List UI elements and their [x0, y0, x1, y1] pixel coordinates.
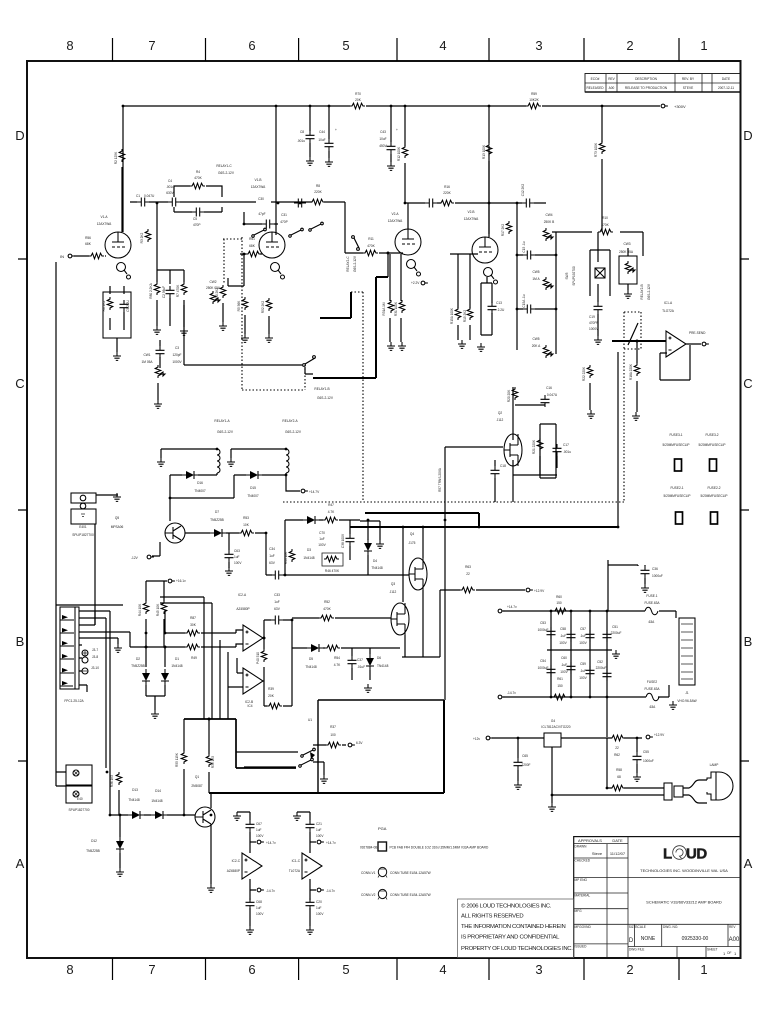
svg-text:VHO.96-5AW: VHO.96-5AW	[677, 699, 696, 703]
svg-text:J1: J1	[685, 691, 689, 695]
svg-text:C1: C1	[136, 194, 140, 198]
svg-text:MPSA06: MPSA06	[111, 525, 124, 529]
svg-text:SW3: SW3	[565, 272, 569, 279]
svg-text:470P: 470P	[193, 223, 200, 227]
svg-text:11/12/07: 11/12/07	[610, 851, 626, 856]
svg-text:D12: D12	[91, 839, 97, 843]
svg-text:63V: 63V	[269, 561, 276, 565]
svg-text:D14: D14	[155, 789, 161, 793]
svg-text:1: 1	[734, 951, 737, 956]
svg-text:C33: C33	[274, 593, 280, 597]
svg-text:TL072A: TL072A	[289, 869, 301, 873]
svg-text:TN4007: TN4007	[247, 494, 259, 498]
svg-text:FUSE.1: FUSE.1	[646, 594, 657, 598]
svg-text:.1uF: .1uF	[561, 663, 567, 667]
svg-text:IC1-C: IC1-C	[292, 859, 301, 863]
svg-text:J175: J175	[409, 541, 416, 545]
svg-text:C19: C19	[589, 315, 595, 319]
svg-text:DATE: DATE	[612, 838, 623, 843]
svg-text:R54: R54	[334, 656, 340, 660]
svg-text:+14.7v: +14.7v	[266, 841, 276, 845]
svg-text:10uF: 10uF	[318, 138, 325, 142]
svg-text:30K: 30K	[190, 623, 197, 627]
svg-text:SPUP192700: SPUP192700	[572, 266, 576, 286]
svg-text:E40: E40	[77, 797, 83, 801]
svg-text:E401: E401	[79, 525, 87, 529]
svg-text:© 2006 LOUD TECHNOLOGIES INC.: © 2006 LOUD TECHNOLOGIES INC.	[461, 903, 552, 910]
svg-text:G6S-2-12V: G6S-2-12V	[647, 283, 651, 300]
svg-text:5: 5	[342, 962, 349, 977]
svg-text:12AX7WA: 12AX7WA	[388, 219, 403, 223]
svg-text:1: 1	[700, 38, 707, 53]
svg-text:R39: R39	[268, 687, 274, 691]
svg-text:63V: 63V	[274, 607, 281, 611]
svg-text:A00: A00	[729, 937, 740, 943]
svg-text:P40 510: P40 510	[256, 652, 260, 664]
svg-text:1000uF: 1000uF	[652, 574, 663, 578]
svg-text:R60: R60	[556, 595, 562, 599]
svg-text:RELAY2-B: RELAY2-B	[640, 284, 644, 299]
svg-text:4.7K: 4.7K	[334, 663, 341, 667]
svg-text:PCB FAB FR4 DOUBLE 1OZ 310x/.: PCB FAB FR4 DOUBLE 1OZ 310x/.35MM/1.6MM …	[390, 846, 489, 850]
svg-text:R18A 220K: R18A 220K	[629, 363, 633, 380]
svg-text:.1uF: .1uF	[580, 669, 586, 673]
svg-text:100V: 100V	[559, 641, 567, 645]
svg-text:Q1: Q1	[195, 775, 199, 779]
svg-text:R22 220K: R22 220K	[582, 366, 586, 381]
svg-text:C37: C37	[357, 658, 363, 662]
svg-text:R57 TRNS.20VA: R57 TRNS.20VA	[438, 467, 442, 492]
svg-text:1uF: 1uF	[256, 906, 262, 910]
svg-text:R49: R49	[191, 656, 197, 660]
svg-text:R5 56K: R5 56K	[237, 300, 241, 312]
svg-text:R13 100K: R13 100K	[482, 144, 486, 159]
svg-text:470PF: 470PF	[589, 321, 598, 325]
svg-text:J3-7: J3-7	[92, 648, 98, 652]
svg-text:MFG: MFG	[575, 909, 583, 913]
svg-text:20K A: 20K A	[532, 344, 541, 348]
svg-text:CW4: CW4	[545, 213, 552, 217]
svg-text:B: B	[744, 634, 753, 649]
svg-text:V1-B: V1-B	[254, 178, 261, 182]
svg-text:R44 10K: R44 10K	[138, 603, 142, 616]
svg-text:D3: D3	[307, 548, 311, 552]
svg-text:100V: 100V	[579, 641, 587, 645]
svg-text:450V: 450V	[379, 144, 387, 148]
svg-text:120pF: 120pF	[172, 353, 181, 357]
svg-text:+14.7v: +14.7v	[507, 605, 517, 609]
svg-text:ECO#: ECO#	[591, 77, 600, 81]
svg-text:D13: D13	[132, 788, 138, 792]
svg-text:C15 .1u: C15 .1u	[522, 241, 526, 252]
svg-text:C2 56uF: C2 56uF	[162, 286, 166, 298]
svg-text:LAMP: LAMP	[710, 763, 719, 767]
svg-text:V2-B: V2-B	[467, 210, 474, 214]
svg-text:6.3V: 6.3V	[356, 741, 363, 745]
svg-text:2: 2	[626, 38, 633, 53]
svg-text:TN4148: TN4148	[128, 798, 140, 802]
svg-text:C13: C13	[496, 301, 502, 305]
svg-text:100V: 100V	[316, 912, 324, 916]
svg-text:TN5Z25B: TN5Z25B	[86, 849, 100, 853]
svg-text:+12.9V: +12.9V	[654, 733, 665, 737]
svg-text:3: 3	[535, 962, 542, 977]
svg-text:100V: 100V	[318, 543, 326, 547]
svg-text:470K: 470K	[194, 176, 202, 180]
svg-text:TN4148: TN4148	[377, 664, 389, 668]
svg-text:470P: 470P	[280, 220, 287, 224]
svg-text:C: C	[15, 376, 24, 391]
svg-text:DWG. NO.: DWG. NO.	[663, 925, 678, 929]
svg-text:5: 5	[342, 38, 349, 53]
svg-text:CW5: CW5	[532, 270, 539, 274]
svg-text:C54: C54	[540, 659, 546, 663]
svg-text:DATE: DATE	[722, 77, 730, 81]
svg-text:TN5Z25B: TN5Z25B	[210, 518, 224, 522]
svg-text:R52 2K2: R52 2K2	[261, 301, 265, 314]
svg-text:1: 1	[723, 951, 726, 956]
svg-text:1N4148: 1N4148	[171, 664, 182, 668]
svg-text:1uF: 1uF	[274, 600, 280, 604]
svg-text:C36: C36	[652, 567, 658, 571]
svg-text:D2: D2	[136, 657, 140, 661]
svg-text:R37: R37	[330, 725, 336, 729]
svg-text:TN4007: TN4007	[194, 489, 206, 493]
svg-text:+16.1v: +16.1v	[176, 579, 186, 583]
svg-text:CW5: CW5	[532, 337, 539, 341]
svg-text:C58: C58	[560, 627, 566, 631]
svg-text:C3: C3	[175, 346, 179, 350]
svg-text:J112: J112	[497, 418, 504, 422]
svg-text:IC2-C: IC2-C	[232, 859, 241, 863]
svg-text:1M A: 1M A	[532, 277, 540, 281]
svg-text:0.047U: 0.047U	[547, 393, 558, 397]
svg-text:5/20MMFUSECLIP: 5/20MMFUSECLIP	[700, 494, 727, 498]
svg-text:TN4148: TN4148	[371, 566, 383, 570]
svg-text:FUSE3-1: FUSE3-1	[669, 433, 682, 437]
svg-text:+300V: +300V	[674, 104, 686, 109]
svg-text:DESCRIPTION: DESCRIPTION	[635, 77, 657, 81]
svg-text:+12v: +12v	[473, 737, 480, 741]
svg-text:.1uF: .1uF	[580, 634, 586, 638]
svg-text:R11: R11	[368, 237, 374, 241]
svg-text:+14.7V: +14.7V	[309, 490, 320, 494]
svg-text:C12 2K2: C12 2K2	[521, 184, 525, 197]
svg-text:MFGOVND: MFGOVND	[575, 925, 592, 929]
svg-text:-12V: -12V	[131, 556, 139, 560]
svg-text:2200F: 2200F	[521, 763, 530, 767]
svg-text:C51: C51	[612, 625, 618, 629]
svg-text:6: 6	[248, 962, 255, 977]
svg-text:REV. BY: REV. BY	[682, 77, 695, 81]
svg-text:C30: C30	[258, 197, 264, 201]
svg-text:SCALE: SCALE	[635, 925, 645, 929]
svg-text:U1: U1	[308, 718, 312, 722]
svg-text:+14.7v: +14.7v	[326, 841, 336, 845]
svg-text:C67: C67	[256, 822, 262, 826]
svg-text:FPC1.25-12A: FPC1.25-12A	[64, 699, 84, 703]
svg-text:SCHEMATIC V33/66V33212 AMP BOA: SCHEMATIC V33/66V33212 AMP BOARD	[646, 900, 722, 905]
svg-text:8: 8	[66, 962, 73, 977]
svg-text:R12 100K: R12 100K	[397, 146, 401, 161]
svg-text:REV: REV	[608, 77, 615, 81]
svg-text:AZ4580P: AZ4580P	[227, 869, 240, 873]
svg-text:C43: C43	[380, 130, 386, 134]
svg-text:R15A 100K: R15A 100K	[450, 307, 454, 324]
svg-text:SPUP1827700: SPUP1827700	[68, 808, 89, 812]
svg-text:L: L	[663, 846, 672, 863]
svg-text:5/20MMFUSECLIP: 5/20MMFUSECLIP	[663, 494, 690, 498]
svg-text:RELEASED: RELEASED	[586, 86, 604, 90]
svg-text:4: 4	[439, 38, 446, 53]
svg-text:100V: 100V	[579, 676, 587, 680]
svg-text:J3-10: J3-10	[91, 666, 99, 670]
svg-text:2.2U: 2.2U	[498, 308, 505, 312]
svg-text:FUSE.63A: FUSE.63A	[644, 601, 660, 605]
svg-text:RELAY2-C: RELAY2-C	[346, 256, 350, 272]
svg-text:C55: C55	[643, 750, 649, 754]
svg-text:R70: R70	[355, 92, 361, 96]
svg-text:FUSE3-2: FUSE3-2	[705, 433, 718, 437]
svg-text:C53: C53	[540, 621, 546, 625]
svg-text:.63A: .63A	[648, 620, 655, 624]
svg-text:IC2-A: IC2-A	[238, 593, 247, 597]
svg-text:D5: D5	[309, 657, 313, 661]
svg-text:100V: 100V	[560, 670, 568, 674]
svg-text:D: D	[743, 128, 752, 143]
svg-text:1M 05A: 1M 05A	[142, 360, 154, 364]
svg-text:100: 100	[330, 733, 336, 737]
svg-text:B: B	[16, 634, 25, 649]
svg-text:R61: R61	[557, 677, 563, 681]
svg-text:IN: IN	[60, 254, 64, 259]
svg-text:20K: 20K	[355, 98, 362, 102]
svg-text:68K: 68K	[85, 242, 92, 246]
svg-text:0925330-00: 0925330-00	[682, 936, 709, 942]
svg-text:CONN TUBE ELB4-12A57W: CONN TUBE ELB4-12A57W	[390, 871, 431, 875]
svg-text:TLO72A: TLO72A	[662, 309, 675, 313]
svg-text:R73 100K: R73 100K	[594, 142, 598, 157]
svg-text:150: 150	[557, 684, 563, 688]
svg-text:1000V: 1000V	[172, 360, 182, 364]
svg-text:D15: D15	[250, 486, 256, 490]
svg-text:250K B: 250K B	[544, 220, 554, 224]
svg-text:.001u: .001u	[166, 185, 174, 189]
svg-text:REV: REV	[729, 925, 736, 929]
svg-text:8: 8	[66, 38, 73, 53]
svg-text:20K: 20K	[268, 694, 275, 698]
svg-text:R58: R58	[616, 768, 622, 772]
svg-text:5/20MMFUSECLIP: 5/20MMFUSECLIP	[662, 443, 689, 447]
svg-text:TN4148: TN4148	[305, 665, 317, 669]
svg-text:RELAY1-A: RELAY1-A	[214, 419, 230, 423]
svg-text:NONE: NONE	[641, 936, 656, 942]
svg-text:C63: C63	[234, 549, 240, 553]
svg-text:UD: UD	[686, 846, 707, 863]
svg-text:2200uF: 2200uF	[611, 631, 622, 635]
svg-text:R31 100K: R31 100K	[394, 301, 398, 316]
svg-text:J3-8: J3-8	[92, 655, 98, 659]
svg-text:G4: G4	[551, 719, 555, 723]
svg-text:2: 2	[626, 962, 633, 977]
svg-text:250K 05A: 250K 05A	[206, 286, 221, 290]
svg-text:C68: C68	[256, 900, 262, 904]
svg-text:470K: 470K	[601, 223, 609, 227]
svg-text:C70: C70	[319, 531, 325, 535]
svg-text:D: D	[629, 938, 634, 944]
svg-text:MP ENG: MP ENG	[575, 878, 588, 882]
svg-text:R3 2K2: R3 2K2	[140, 232, 144, 243]
svg-text:ICL7812ACV/TO220: ICL7812ACV/TO220	[541, 725, 570, 729]
svg-text:RELAY1-C: RELAY1-C	[216, 164, 232, 168]
svg-text:TECHNOLOGIES INC. WOODINVILLE: TECHNOLOGIES INC. WOODINVILLE WA. USA	[640, 868, 728, 873]
svg-text:100V: 100V	[234, 561, 242, 565]
svg-text:G6S-2-12V: G6S-2-12V	[217, 430, 234, 434]
svg-text:Steve: Steve	[592, 851, 603, 856]
svg-text:12AX7WA: 12AX7WA	[464, 217, 479, 221]
svg-text:R56: R56	[85, 236, 91, 240]
svg-text:CW2: CW2	[209, 280, 216, 284]
svg-text:G6S-2-12V: G6S-2-12V	[218, 171, 235, 175]
svg-text:C34: C34	[269, 547, 275, 551]
svg-text:A: A	[16, 856, 25, 871]
svg-text:CONN TUBE ELB4-12A57W: CONN TUBE ELB4-12A57W	[390, 893, 431, 897]
svg-text:FUSE.63A: FUSE.63A	[644, 687, 660, 691]
svg-text:R16: R16	[444, 185, 450, 189]
svg-text:R8: R8	[316, 184, 320, 188]
svg-text:SPLIP1827700: SPLIP1827700	[72, 533, 94, 537]
svg-text:C5: C5	[193, 217, 197, 221]
svg-text:1uF: 1uF	[269, 554, 275, 558]
svg-text:FUSE2-2: FUSE2-2	[707, 486, 720, 490]
svg-text:C4: C4	[168, 179, 172, 183]
svg-text:1uF: 1uF	[234, 555, 240, 559]
svg-text:Q5: Q5	[115, 516, 119, 520]
svg-text:1uF: 1uF	[319, 537, 325, 541]
svg-text:DWG FILE: DWG FILE	[629, 948, 644, 952]
svg-text:10K: 10K	[243, 523, 250, 527]
svg-text:100V: 100V	[256, 912, 264, 916]
svg-text:IC4: IC4	[248, 704, 253, 708]
svg-text:+12.9V: +12.9V	[534, 589, 545, 593]
svg-text:+: +	[396, 128, 398, 132]
svg-text:-14.7v: -14.7v	[507, 691, 516, 695]
svg-text:.63A: .63A	[649, 705, 656, 709]
svg-text:R63: R63	[465, 565, 471, 569]
svg-text:ALL RIGHTS RESERVED: ALL RIGHTS RESERVED	[461, 914, 523, 920]
svg-text:CW1: CW1	[143, 353, 150, 357]
svg-text:C15A .1u: C15A .1u	[522, 294, 526, 307]
svg-text:R36 1K5: R36 1K5	[110, 775, 114, 788]
svg-text:C31: C31	[281, 213, 287, 217]
svg-text:47pF: 47pF	[258, 212, 265, 216]
svg-text:68K: 68K	[249, 244, 256, 248]
svg-text:CHECKED: CHECKED	[575, 859, 591, 863]
svg-text:D4: D4	[373, 559, 377, 563]
svg-text:220K: 220K	[314, 190, 322, 194]
svg-text:1N4148: 1N4148	[151, 799, 162, 803]
svg-text:12AX7WA: 12AX7WA	[251, 185, 266, 189]
svg-text:0927884-0B: 0927884-0B	[360, 846, 377, 850]
svg-text:D7: D7	[215, 510, 219, 514]
svg-text:1000uF: 1000uF	[538, 628, 549, 632]
svg-text:RELAY2-A: RELAY2-A	[282, 419, 298, 423]
svg-text:2200uF: 2200uF	[596, 666, 607, 670]
svg-text:C18: C18	[500, 464, 506, 468]
svg-text:1000uF: 1000uF	[538, 666, 549, 670]
svg-text:IC1-A: IC1-A	[664, 301, 673, 305]
svg-text:-14.7v: -14.7v	[326, 889, 335, 893]
svg-text:C20: C20	[316, 900, 322, 904]
svg-text:5/20MMFUSECLIP: 5/20MMFUSECLIP	[698, 443, 725, 447]
svg-text:Q4: Q4	[410, 532, 414, 536]
svg-text:OF: OF	[727, 951, 731, 955]
svg-text:ISSUED: ISSUED	[575, 945, 588, 949]
svg-text:R7 470K: R7 470K	[176, 284, 180, 297]
svg-text:R87: R87	[190, 616, 196, 620]
svg-text:R45 10K: R45 10K	[156, 603, 160, 616]
svg-text:R55 115K: R55 115K	[175, 752, 179, 767]
svg-text:D16: D16	[197, 481, 203, 485]
svg-text:G6S-2-12V: G6S-2-12V	[353, 255, 357, 272]
svg-text:R46 470K: R46 470K	[325, 569, 340, 573]
svg-text:C38 100V: C38 100V	[341, 533, 345, 548]
svg-text:C5 2.2U: C5 2.2U	[126, 299, 130, 311]
svg-text:IS PROPRIETARY AND CONFIDENTIA: IS PROPRIETARY AND CONFIDENTIAL	[461, 935, 560, 941]
svg-text:C57: C57	[580, 627, 586, 631]
svg-text:7: 7	[148, 962, 155, 977]
svg-text:APPROVALS: APPROVALS	[578, 838, 602, 843]
svg-text:+2.2V: +2.2V	[411, 281, 420, 285]
svg-text:CONN-V1: CONN-V1	[361, 871, 376, 875]
svg-text:2N5087: 2N5087	[191, 784, 202, 788]
svg-text:R51: R51	[249, 237, 255, 241]
svg-text:CW3: CW3	[623, 242, 630, 246]
svg-text:CONN-V2: CONN-V2	[361, 893, 376, 897]
svg-text:68: 68	[617, 775, 621, 779]
svg-text:MATERIAL: MATERIAL	[575, 894, 591, 898]
svg-text:250K 05A: 250K 05A	[619, 250, 634, 254]
svg-text:22: 22	[615, 746, 619, 750]
svg-text:C52: C52	[597, 660, 603, 664]
svg-text:C: C	[743, 376, 752, 391]
svg-text:V2-A: V2-A	[391, 212, 399, 216]
svg-text:Q2: Q2	[498, 411, 502, 415]
svg-text:R10: R10	[602, 216, 608, 220]
svg-text:630V: 630V	[166, 191, 174, 195]
svg-text:STEVE: STEVE	[683, 86, 693, 90]
svg-text:1uF: 1uF	[256, 828, 262, 832]
svg-text:R53: R53	[243, 516, 249, 520]
svg-text:R47: R47	[328, 503, 334, 507]
svg-text:D1: D1	[175, 657, 179, 661]
svg-text:A: A	[744, 856, 753, 871]
svg-text:6: 6	[248, 38, 255, 53]
svg-text:-14.7v: -14.7v	[266, 889, 275, 893]
svg-text:10uF: 10uF	[379, 137, 386, 141]
svg-text:R15 2K2: R15 2K2	[463, 310, 467, 323]
svg-text:C8: C8	[300, 130, 304, 134]
svg-text:470K: 470K	[367, 244, 375, 248]
svg-text:7: 7	[148, 38, 155, 53]
svg-text:PRE-SEND: PRE-SEND	[689, 331, 706, 335]
svg-text:C59: C59	[580, 662, 586, 666]
svg-text:FUSE2: FUSE2	[647, 680, 658, 684]
svg-text:10K2K: 10K2K	[529, 98, 539, 102]
svg-text:R20 20K: R20 20K	[507, 389, 511, 402]
svg-text:C16: C16	[546, 386, 552, 390]
svg-text:R62: R62	[614, 753, 620, 757]
